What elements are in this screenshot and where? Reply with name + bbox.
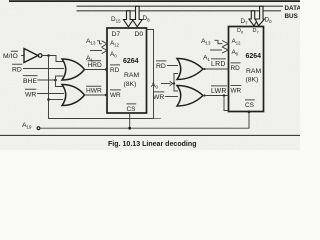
node U2 CS junction: [248, 110, 251, 113]
wire BHE up into G1: [56, 76, 64, 80]
U1 pin RD: [110, 65, 120, 74]
wire stub right of M-route corner: [154, 118, 161, 120]
label DATA BUS: [285, 5, 302, 20]
or-gate G4 (LWR): [177, 86, 203, 107]
node on LWR line: [223, 94, 225, 96]
wire A13 arrow into U1: [97, 41, 107, 47]
wire A1 arrow into U1: [90, 47, 107, 53]
node LWR tip dot: [203, 94, 205, 96]
label LWR: [211, 86, 227, 95]
wire WR into G4: [165, 96, 178, 98]
bus arrow D15 into left RAM: [123, 11, 133, 27]
node U1 CS junction: [128, 127, 131, 130]
U2 pin WR: [231, 85, 242, 94]
wire A0 up into G3: [174, 74, 178, 84]
inverter U3: [24, 49, 38, 63]
wire LWR branch to U2 CS2: [224, 96, 229, 111]
wire A0 down into G4: [174, 84, 178, 92]
or-gate G3 (LRD): [177, 59, 203, 80]
label WR: [25, 89, 36, 98]
wire RD into G1: [23, 68, 64, 70]
or-gate G2 (HWR): [62, 85, 85, 106]
wire A19 to chip selects: [40, 112, 249, 129]
paper noise overlay (decorative): [0, 0, 300, 150]
label LRD: [211, 59, 226, 68]
label HWR: [86, 86, 102, 94]
wire BHE down into G2: [56, 80, 64, 87]
data bus lower line: [77, 10, 282, 12]
or-gate G1 (HRD): [62, 59, 85, 80]
U1 label RAM (8K): [124, 72, 140, 88]
U2 pin RD: [231, 63, 241, 72]
label RD: [12, 64, 22, 73]
wire BHE to branch node: [38, 79, 56, 81]
RAM U2 (right 6264) box: [229, 27, 264, 112]
wire A13 arrow into U2: [215, 40, 229, 47]
node A19 terminal: [37, 127, 40, 130]
wire WR into G2: [37, 93, 64, 95]
wire M/IO down route to CS2: [49, 30, 154, 119]
bus arrow D8 into left RAM: [132, 6, 142, 27]
U2 pin CS: [245, 100, 255, 109]
label HRD: [88, 61, 103, 69]
wire A1 arrow into U2: [210, 47, 228, 53]
wire G2 output to U1 WR: [85, 94, 108, 96]
node on M/IO line: [47, 54, 50, 57]
node HRD pin dot: [105, 68, 107, 70]
caption rule: [0, 134, 300, 136]
node A0 branch: [173, 82, 175, 84]
U1 pin WR: [110, 90, 121, 99]
top border line: [9, 0, 300, 2]
label BHE: [23, 76, 38, 85]
node HWR pin dot: [105, 94, 107, 96]
bus arrow D0 into right RAM: [255, 6, 264, 26]
U2 label RAM (8K): [246, 68, 262, 84]
RAM U1 (left 6264) box: [107, 28, 147, 113]
wire G1 output to U1 RD: [85, 69, 108, 71]
node M/IO branch to gate G2: [47, 98, 50, 101]
wire RD into G3: [167, 65, 178, 67]
wire M/IO to inverter: [21, 55, 24, 57]
wire U1 CS drop: [129, 113, 131, 128]
wire G3 output to U2 RD: [203, 68, 229, 70]
wire A0 arrow to branch: [161, 81, 173, 86]
node LRD tip dot: [203, 68, 205, 70]
label WR (middle): [153, 92, 164, 101]
data bus upper line: [77, 5, 284, 7]
U1 pin CS: [127, 104, 137, 113]
wire G4 output to U2 WR: [203, 95, 229, 97]
wire M/IO branch into G2: [49, 99, 64, 101]
bus arrow D7 into right RAM: [249, 11, 258, 26]
node BHE branch: [54, 79, 57, 82]
wire inverter output: [42, 56, 63, 62]
label M/IO: [3, 51, 18, 60]
label RD (middle): [156, 61, 166, 70]
